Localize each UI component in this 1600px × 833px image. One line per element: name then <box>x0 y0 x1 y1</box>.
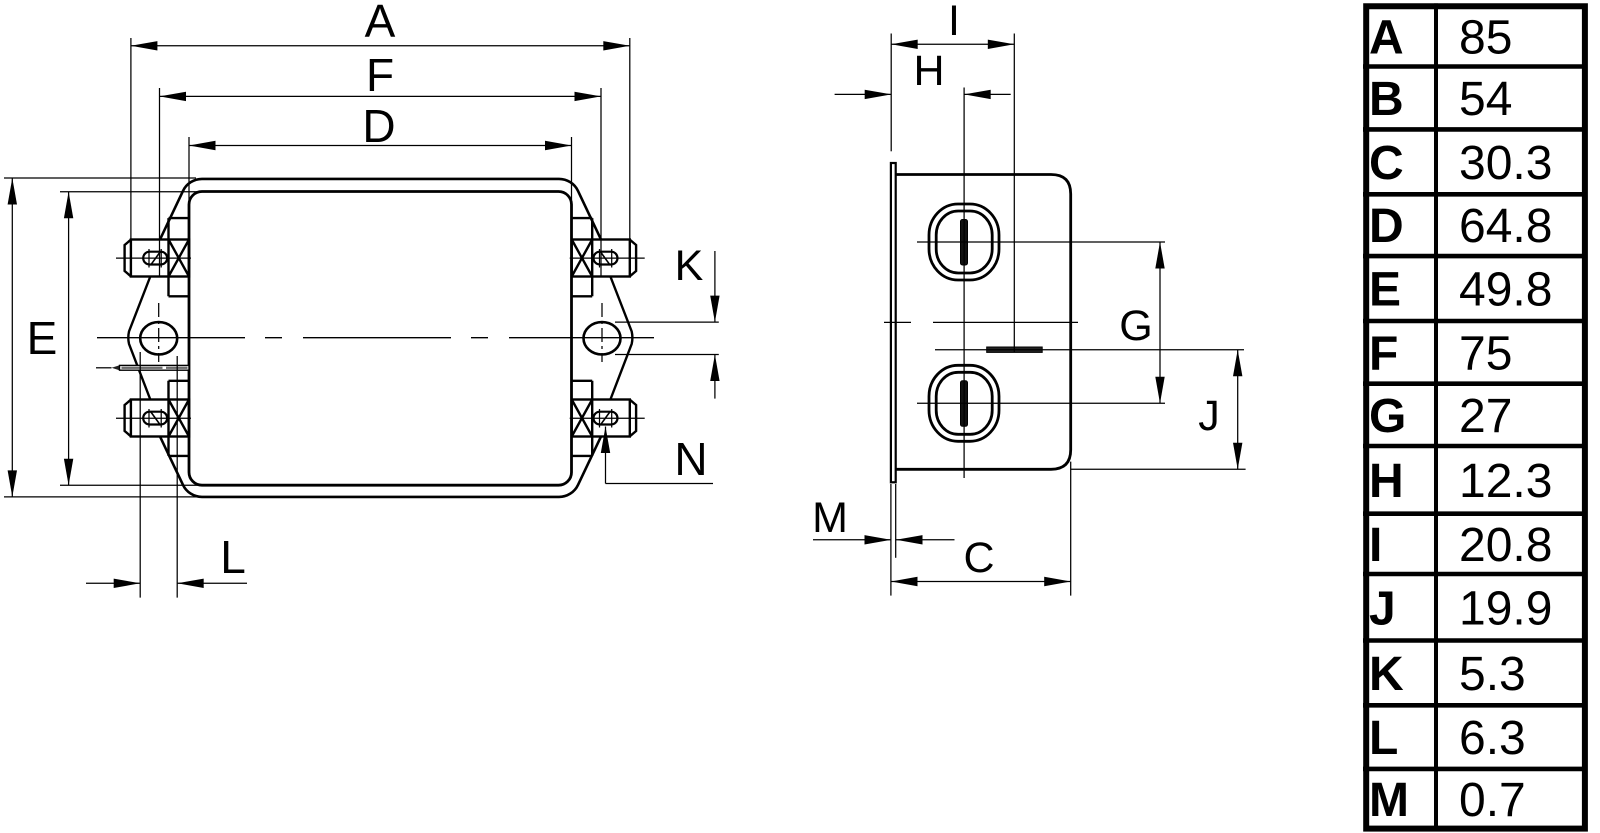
svg-text:75: 75 <box>1459 327 1512 380</box>
svg-text:49.8: 49.8 <box>1459 264 1552 317</box>
svg-text:0.7: 0.7 <box>1459 774 1526 827</box>
svg-text:M: M <box>812 494 848 542</box>
upper tab cap <box>125 240 131 277</box>
svg-text:20.8: 20.8 <box>1459 519 1552 572</box>
I <box>891 43 1014 45</box>
svg-text:A: A <box>365 0 396 47</box>
L <box>139 352 141 598</box>
J <box>1237 350 1239 470</box>
svg-text:D: D <box>1369 200 1404 253</box>
FRONT VIEW <box>96 179 654 497</box>
svg-text:85: 85 <box>1459 11 1512 64</box>
flange plate <box>891 163 896 482</box>
svg-text:E: E <box>1369 264 1401 317</box>
upper tab rect <box>131 240 189 277</box>
thin marks <box>116 249 191 428</box>
svg-text:12.3: 12.3 <box>1459 455 1552 508</box>
svg-text:G: G <box>1119 302 1152 350</box>
A <box>131 45 630 47</box>
upper oval hole <box>143 252 167 265</box>
svg-text:B: B <box>1369 73 1404 126</box>
pin (solder terminal) <box>96 365 189 371</box>
K <box>615 321 719 323</box>
svg-text:30.3: 30.3 <box>1459 137 1552 190</box>
svg-text:C: C <box>1369 137 1404 190</box>
right side bracket, tabs and hole (mirrored copy) <box>570 218 645 456</box>
svg-text:K: K <box>1369 648 1404 701</box>
SIDE VIEW <box>884 34 1246 483</box>
svg-text:F: F <box>366 49 394 101</box>
F <box>160 95 602 97</box>
svg-text:F: F <box>1369 327 1398 380</box>
bracket bottom edge <box>160 437 601 497</box>
svg-text:54: 54 <box>1459 73 1512 126</box>
svg-text:N: N <box>674 433 707 485</box>
svg-text:J: J <box>1198 392 1220 440</box>
svg-text:I: I <box>1369 519 1382 572</box>
TABLE <box>1363 3 1588 829</box>
mid slant with vertex <box>128 277 150 400</box>
svg-text:27: 27 <box>1459 390 1512 443</box>
arrowheads front <box>8 41 720 588</box>
DIMENSIONS SIDE <box>813 34 1238 596</box>
N leader <box>605 427 607 484</box>
H <box>835 93 892 95</box>
lower oval hole <box>143 412 167 425</box>
svg-text:C: C <box>963 534 994 582</box>
B vertical <box>11 178 13 497</box>
svg-text:L: L <box>1369 712 1398 765</box>
lower X-box <box>169 400 190 437</box>
E vertical <box>68 192 70 486</box>
D <box>189 145 572 147</box>
lower tab cap <box>125 400 131 437</box>
svg-text:D: D <box>362 100 395 152</box>
svg-text:I: I <box>948 0 960 45</box>
svg-text:L: L <box>220 531 246 583</box>
svg-text:J: J <box>1369 582 1396 635</box>
pin bar <box>987 347 1042 352</box>
body <box>896 175 1071 470</box>
svg-text:A: A <box>1369 11 1404 64</box>
DIMENSIONS FRONT <box>4 38 719 598</box>
svg-text:H: H <box>913 47 944 95</box>
bracket top edge <box>160 179 601 240</box>
upper terminal outer <box>929 204 999 280</box>
svg-text:E: E <box>27 312 58 364</box>
svg-text:19.9: 19.9 <box>1459 582 1552 635</box>
G <box>1159 242 1161 403</box>
lower terminal <box>929 365 999 441</box>
svg-text:64.8: 64.8 <box>1459 200 1552 253</box>
body outline (inner rounded rect) <box>189 192 572 486</box>
C <box>891 581 1071 583</box>
svg-text:H: H <box>1369 455 1404 508</box>
svg-text:G: G <box>1369 390 1406 443</box>
mounting hole ellipse <box>140 322 177 354</box>
svg-text:M: M <box>1369 774 1409 827</box>
M <box>813 539 891 541</box>
svg-text:K: K <box>675 242 704 290</box>
svg-text:5.3: 5.3 <box>1459 648 1526 701</box>
svg-text:6.3: 6.3 <box>1459 712 1526 765</box>
upper X-box <box>169 240 190 277</box>
lower tab rect <box>131 400 189 437</box>
upper shoulders <box>169 218 190 296</box>
main centerline <box>97 337 654 339</box>
lower shoulders <box>169 381 190 456</box>
